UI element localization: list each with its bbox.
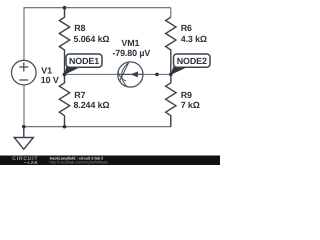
svg-text:NODE2: NODE2	[177, 56, 207, 66]
junction dot NODE1	[63, 73, 67, 77]
svg-text:http://circuitlab.com/c/rghtyf: http://circuitlab.com/c/rghtyfxfl8anz	[50, 161, 108, 165]
svg-text:∼LAB: ∼LAB	[24, 160, 39, 165]
node flag NODE2	[171, 54, 210, 75]
resistor R8	[59, 8, 69, 75]
resistor R7	[59, 74, 69, 126]
voltmeter VM1	[118, 62, 143, 87]
footer bar	[0, 156, 220, 166]
svg-text:R7: R7	[74, 90, 85, 100]
wire middle node1 to node2 through VM1	[64, 73, 170, 75]
VM1 arrow head	[131, 71, 138, 77]
svg-text:-79.80 µV: -79.80 µV	[112, 48, 150, 58]
ground	[14, 127, 33, 150]
junction dot NODE2	[169, 73, 173, 77]
junction dot top R8	[63, 6, 67, 10]
resistor R6	[166, 17, 176, 74]
junction dot R7 bottom	[63, 125, 67, 129]
junction dot ground	[22, 125, 26, 129]
svg-text:VM1: VM1	[121, 38, 139, 48]
wire R6 top lead corner	[170, 8, 172, 18]
svg-text:R9: R9	[181, 90, 192, 100]
svg-text:NODE1: NODE1	[69, 56, 99, 66]
svg-text:R6: R6	[181, 23, 192, 33]
wire bottom rail ground to R9	[24, 116, 171, 127]
voltage source V1	[11, 60, 36, 85]
junction dot VM1 right	[155, 73, 159, 77]
wire top rail from V1 to R6	[24, 8, 171, 61]
svg-text:5.064 kΩ: 5.064 kΩ	[74, 34, 110, 44]
svg-text:7 kΩ: 7 kΩ	[181, 100, 200, 110]
svg-text:R8: R8	[74, 23, 85, 33]
svg-text:4.3 kΩ: 4.3 kΩ	[181, 34, 207, 44]
wire V1 bottom to ground rail	[23, 85, 25, 127]
svg-text:8.244 kΩ: 8.244 kΩ	[74, 100, 110, 110]
node flag NODE1	[64, 54, 102, 75]
footer CircuitLab logo	[12, 156, 38, 165]
svg-text:10 V: 10 V	[41, 75, 59, 85]
resistor R9	[166, 74, 176, 126]
